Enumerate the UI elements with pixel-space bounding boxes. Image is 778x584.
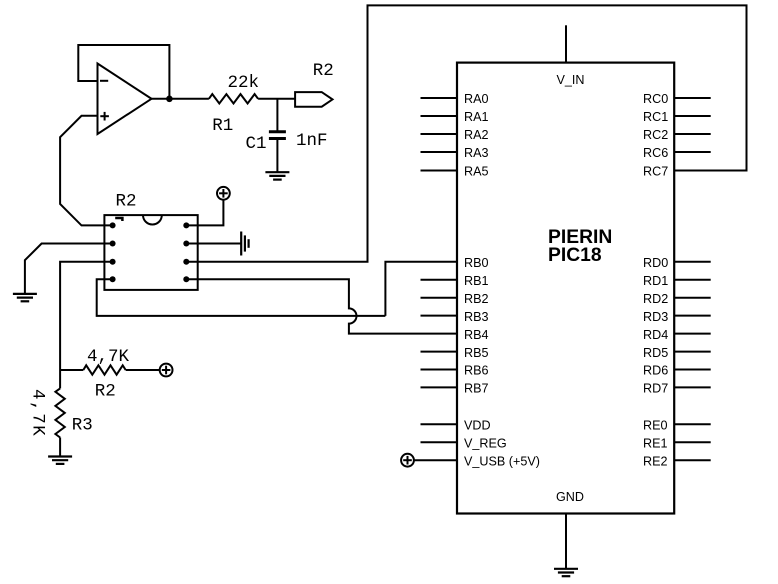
svg-text:RC0: RC0 <box>643 92 668 106</box>
wire IC pin 8 to +V <box>186 200 223 226</box>
ground below PIC <box>554 569 578 576</box>
pin RB3 <box>421 315 458 317</box>
ground below R3 <box>48 457 72 464</box>
svg-text:RB4: RB4 <box>464 328 489 342</box>
svg-text:V_USB (+5V): V_USB (+5V) <box>464 454 540 468</box>
pin RB1 <box>421 279 458 281</box>
wire IC pin 7 to ground <box>186 243 241 245</box>
pin RC1 <box>674 115 711 117</box>
power +V right of R2 <box>160 364 173 377</box>
svg-text:R2: R2 <box>116 191 137 211</box>
IC pin 5 <box>183 276 189 282</box>
pin RD1 <box>674 279 711 281</box>
svg-text:4,7K: 4,7K <box>87 347 130 367</box>
pin RA0 <box>421 97 458 99</box>
IC pin 1 <box>110 222 116 228</box>
svg-text:22k: 22k <box>228 73 260 93</box>
resistor R2 4,7K horizontal <box>60 369 83 371</box>
pin RD2 <box>674 297 711 299</box>
ground below C1 <box>265 172 289 179</box>
pin V_REG <box>421 441 458 443</box>
svg-text:RC7: RC7 <box>643 165 668 179</box>
pin V_USB (+5V) <box>414 459 457 461</box>
svg-text:RB7: RB7 <box>464 382 489 396</box>
svg-text:RD0: RD0 <box>643 256 668 270</box>
capacitor C1 <box>269 132 286 139</box>
pin RD0 <box>674 261 711 263</box>
pin RB2 <box>421 297 458 299</box>
svg-text:RC1: RC1 <box>643 110 668 124</box>
svg-text:RC6: RC6 <box>643 146 668 160</box>
svg-text:RB1: RB1 <box>464 274 489 288</box>
wire IC pin 3 down to R2/R3 junction <box>60 262 113 370</box>
svg-text:RB3: RB3 <box>464 310 489 324</box>
wire node to C1 top <box>276 99 278 132</box>
svg-text:GND: GND <box>556 490 584 504</box>
svg-text:RB6: RB6 <box>464 364 489 378</box>
svg-text:RA5: RA5 <box>464 165 489 179</box>
svg-text:R1: R1 <box>212 116 233 136</box>
svg-text:RD7: RD7 <box>643 382 668 396</box>
pin RD6 <box>674 369 711 371</box>
pin VDD <box>421 423 458 425</box>
svg-text:RA3: RA3 <box>464 146 489 160</box>
pin RE1 <box>674 441 711 443</box>
IC pin 6 <box>183 259 189 265</box>
svg-text:RB0: RB0 <box>464 256 489 270</box>
svg-text:RD6: RD6 <box>643 364 668 378</box>
pin RD7 <box>674 386 711 388</box>
connector R2 output tag <box>295 92 332 107</box>
svg-text:RE2: RE2 <box>643 454 668 468</box>
svg-text:V_IN: V_IN <box>557 73 585 87</box>
svg-text:4,7K: 4,7K <box>28 389 48 437</box>
wire op-amp output to R1 <box>152 98 209 100</box>
IC pin 2 <box>110 241 116 247</box>
pin RC0 <box>674 97 711 99</box>
svg-text:RA0: RA0 <box>464 92 489 106</box>
svg-text:V_REG: V_REG <box>464 437 507 451</box>
IC pin 8 <box>183 222 189 228</box>
svg-text:RA2: RA2 <box>464 128 489 142</box>
wire op-amp feedback loop <box>78 45 169 99</box>
svg-text:RE0: RE0 <box>643 419 668 433</box>
pin RB5 <box>421 351 458 353</box>
svg-text:PIC18: PIC18 <box>548 245 602 266</box>
pin RA3 <box>421 151 458 153</box>
resistor R3 vertical <box>59 370 61 388</box>
pin RD4 <box>674 333 711 335</box>
pin RB7 <box>421 386 458 388</box>
wire R1 to C1 node <box>258 98 295 100</box>
svg-text:RD4: RD4 <box>643 328 668 342</box>
IC pin 4 <box>110 276 116 282</box>
ground below IC pin 2 wire <box>13 294 37 301</box>
svg-text:RD2: RD2 <box>643 292 668 306</box>
svg-text:R2: R2 <box>95 382 116 402</box>
pin RB6 <box>421 369 458 371</box>
pin RD3 <box>674 315 711 317</box>
pin RC2 <box>674 133 711 135</box>
IC U2 PIERIN PIC18 <box>457 63 674 514</box>
pin RA2 <box>421 133 458 135</box>
pin GND <box>565 514 567 569</box>
pin RE2 <box>674 459 711 461</box>
wire IC pin 2 to ground <box>25 244 113 294</box>
svg-text:RA1: RA1 <box>464 110 489 124</box>
power +V at V_USB <box>401 454 414 467</box>
IC pin 3 <box>110 259 116 265</box>
wire C1 bottom to ground <box>276 139 278 173</box>
pin RA1 <box>421 115 458 117</box>
svg-text:RC2: RC2 <box>643 128 668 142</box>
IC R2 (8-pin DIP) <box>104 215 197 290</box>
wire IC pin 4 to RB0 <box>97 279 386 316</box>
svg-text:VDD: VDD <box>464 419 491 433</box>
svg-text:RD5: RD5 <box>643 346 668 360</box>
op-amp U1 <box>98 64 152 135</box>
svg-text:R3: R3 <box>72 416 93 436</box>
ground rotated right of IC <box>241 232 248 256</box>
resistor R1 <box>209 94 258 103</box>
svg-text:RB2: RB2 <box>464 292 489 306</box>
pin V_IN <box>565 25 567 62</box>
svg-text:RD1: RD1 <box>643 274 668 288</box>
svg-text:1nF: 1nF <box>296 131 328 151</box>
pin RA5 <box>421 170 458 172</box>
svg-text:R2: R2 <box>313 61 334 81</box>
pin RE0 <box>674 423 711 425</box>
wire IC pin 6 to PIC RC7 via top loop <box>186 5 746 261</box>
wire op-amp + input to IC pin 1 <box>60 116 113 226</box>
wire IC pin 5 to PIC RB4 with hop <box>186 279 457 333</box>
power +V above IC <box>217 187 230 200</box>
svg-text:RE1: RE1 <box>643 437 668 451</box>
IC pin 7 <box>183 241 189 247</box>
svg-text:C1: C1 <box>246 134 267 154</box>
pin RD5 <box>674 351 711 353</box>
pin RC6 <box>674 151 711 153</box>
node op-amp output junction <box>166 96 173 103</box>
svg-text:RB5: RB5 <box>464 346 489 360</box>
svg-text:RD3: RD3 <box>643 310 668 324</box>
